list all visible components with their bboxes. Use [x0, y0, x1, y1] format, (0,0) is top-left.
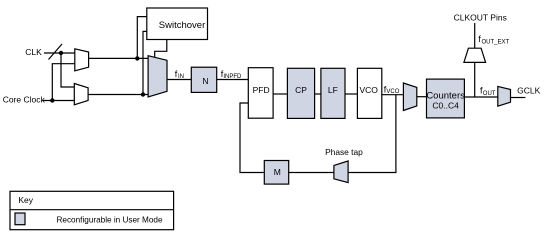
- svg-text:M: M: [274, 167, 281, 177]
- wire mux to counters: [417, 96, 427, 98]
- svg-text:Core Clock: Core Clock: [3, 95, 46, 105]
- junction dot lower clock node: [141, 92, 145, 96]
- svg-text:VCO: VCO: [386, 89, 399, 95]
- wire LF to VCO: [345, 93, 357, 95]
- svg-text:CLK: CLK: [25, 47, 42, 57]
- block Switchover: [147, 8, 208, 40]
- mux GCLK: [498, 86, 511, 106]
- svg-text:GCLK: GCLK: [517, 85, 540, 95]
- wire M to phase tap mux: [289, 172, 334, 174]
- block PFD: [248, 68, 273, 119]
- input mux upper (CLK/Core Clock): [75, 49, 89, 71]
- svg-text:CP: CP: [295, 85, 307, 95]
- wire main mux to N counter: [167, 79, 192, 81]
- wire counters to GCLK mux: [464, 96, 497, 98]
- wire VCO to output mux: [382, 94, 404, 96]
- wire Core Clock riser to upper input mux: [52, 64, 75, 101]
- mux phase tap: [334, 161, 348, 183]
- svg-text:OUT: OUT: [483, 91, 496, 97]
- svg-text:Reconfigurable in User Mode: Reconfigurable in User Mode: [57, 216, 163, 225]
- block VCO: [357, 68, 381, 118]
- block LF loop filter: [321, 68, 345, 118]
- junction dot upper clock node: [135, 56, 139, 60]
- svg-text:INPFD: INPFD: [223, 74, 242, 80]
- buffer CLKOUT external: [464, 48, 486, 62]
- wire riser to Switchover input 2: [143, 31, 147, 94]
- wire riser to Switchover input 1: [137, 17, 147, 59]
- block CP charge pump: [287, 68, 314, 118]
- wire CLKOUT buffer to pins: [474, 23, 476, 48]
- key swatch reconfigurable: [15, 213, 25, 225]
- counter M: [264, 161, 288, 185]
- wire CP to LF: [315, 93, 321, 95]
- svg-text:Phase tap: Phase tap: [325, 147, 363, 157]
- svg-text:N: N: [202, 76, 208, 86]
- wire phase tap to VCO node: [348, 95, 396, 173]
- svg-text:PFD: PFD: [253, 85, 270, 95]
- wire Switchover select to main mux: [155, 40, 167, 58]
- wire PFD to CP: [273, 93, 287, 95]
- wire GCLK output: [511, 97, 526, 99]
- mux VCO output: [403, 83, 416, 111]
- wire feedback from PFD down: [240, 103, 264, 173]
- mux main clock select: [148, 56, 167, 97]
- svg-text:VCO: VCO: [360, 85, 379, 95]
- svg-text:LF: LF: [328, 85, 338, 95]
- wire CLK riser to lower input mux: [61, 53, 74, 87]
- wire riser to CLKOUT buffer: [474, 62, 476, 97]
- svg-text:CLKOUT Pins: CLKOUT Pins: [454, 12, 507, 22]
- key divider: [10, 209, 174, 211]
- wire lower mux output to main mux: [88, 94, 148, 96]
- bus slash on CLK wire: [49, 44, 63, 60]
- svg-text:IN: IN: [178, 74, 184, 80]
- junction dot CLK: [59, 51, 63, 55]
- wire N to PFD: [217, 79, 249, 81]
- input mux lower (CLK/Core Clock): [74, 84, 88, 105]
- key box: [10, 191, 174, 229]
- wire upper mux output to main mux: [89, 57, 149, 59]
- svg-text:Switchover: Switchover: [159, 20, 205, 31]
- block Counters C0..C4: [427, 79, 465, 118]
- junction dot Core Clock: [50, 98, 54, 102]
- svg-text:Key: Key: [18, 195, 33, 205]
- wire Core Clock input: [43, 100, 75, 102]
- svg-text:C0..C4: C0..C4: [432, 101, 459, 111]
- svg-text:OUT_EXT: OUT_EXT: [482, 39, 510, 45]
- counter N: [191, 67, 216, 92]
- wire CLK input: [44, 52, 75, 54]
